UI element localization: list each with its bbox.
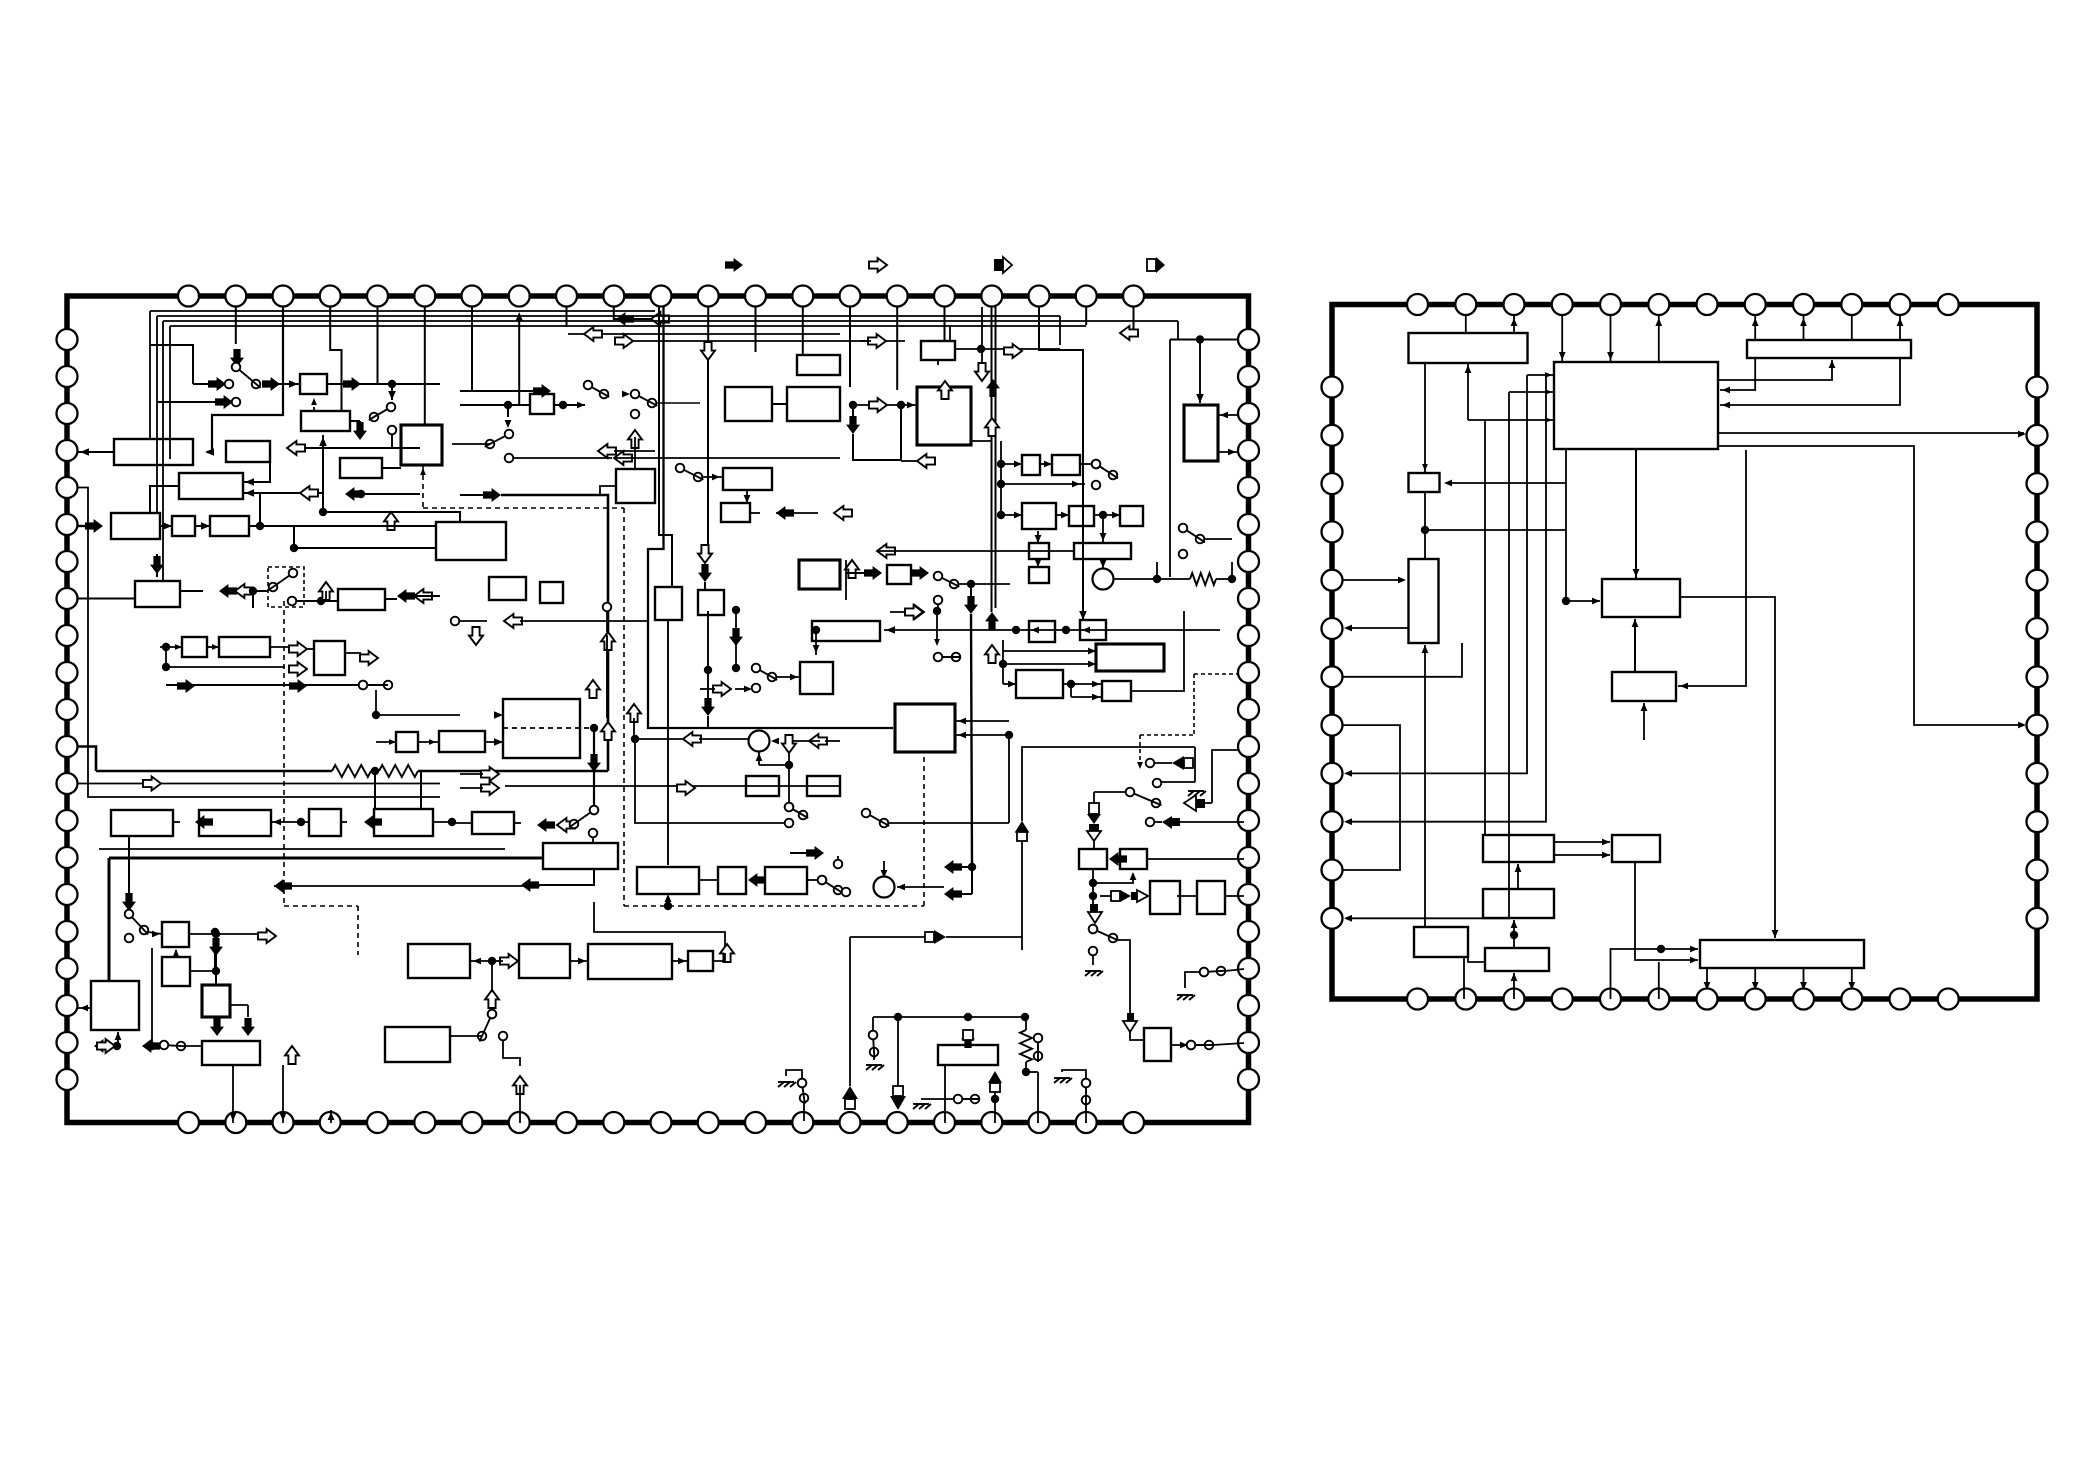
switch S12 lever xyxy=(132,918,148,935)
wire R3 to R2 in2 xyxy=(1720,358,1900,405)
ah B30 xyxy=(1044,461,1052,468)
ah B29 xyxy=(1014,461,1022,468)
block B3 xyxy=(401,425,442,465)
IC1 top pin 13 xyxy=(745,286,766,307)
wire x1071 xyxy=(1070,684,1072,697)
switch contact xyxy=(499,1032,508,1041)
IC1 left pin 21 xyxy=(57,1069,78,1090)
wire R7 to R6 xyxy=(1634,619,1636,672)
wire y771 right xyxy=(418,770,608,773)
junction x635 xyxy=(631,735,639,743)
filled left arrow right of B12 xyxy=(397,589,415,603)
wire B51 out xyxy=(190,933,216,935)
switch S26 contact A xyxy=(954,1095,963,1104)
ah into B48 xyxy=(273,819,281,826)
switch S27 contact B xyxy=(1034,1052,1043,1061)
ah pin6 xyxy=(1655,318,1662,326)
hollow right arrow h2 xyxy=(615,334,633,348)
wire B34 to mixer xyxy=(1102,559,1104,568)
hollow right arrow y783 xyxy=(143,777,161,791)
IC1 right pin 7 xyxy=(1238,551,1259,572)
hollow down arrow P12 xyxy=(701,342,715,360)
wire B41 out up xyxy=(1131,611,1184,691)
dashed v x1140 xyxy=(1139,735,1141,766)
wire P8 drop xyxy=(518,318,520,405)
switch S23 lever xyxy=(480,1019,490,1042)
filled down arrow x217 xyxy=(210,1018,224,1036)
block B2 xyxy=(301,411,350,431)
wire x846 xyxy=(845,560,847,600)
switch contact xyxy=(842,888,851,897)
ah R2 in1 xyxy=(1722,387,1730,394)
wire y774 xyxy=(460,773,483,775)
filled arrow into switch S1 xyxy=(230,349,244,367)
wire v x166 xyxy=(165,647,167,667)
wire to resistor xyxy=(1157,578,1190,580)
switch contact xyxy=(834,860,843,869)
IC2 right pin 2 xyxy=(2027,425,2048,446)
wire to B42 xyxy=(160,646,182,648)
wire M1 bottom h xyxy=(759,764,789,766)
ah R2 in2 xyxy=(1722,402,1730,409)
switch contact xyxy=(1187,1041,1196,1050)
wire S10 out xyxy=(958,583,1010,585)
wire P21 left xyxy=(1122,307,1134,333)
block B42 xyxy=(182,637,207,657)
IC2 top pin 2 xyxy=(1455,294,1476,315)
junction S13 xyxy=(732,664,740,672)
wire P14 drop xyxy=(802,307,804,355)
IC1 bottom pin 11 xyxy=(651,1112,672,1133)
bus vertical C xyxy=(991,307,993,612)
filled right arrow y686a xyxy=(177,679,195,693)
wire P7 drop xyxy=(471,307,473,391)
IC1 bottom pin 13 xyxy=(745,1112,766,1133)
IC2 bottom pin 5 xyxy=(1600,989,1621,1010)
wire B54 to pin xyxy=(232,1065,234,1123)
wire B49-B50 xyxy=(341,821,347,823)
wire B14 out xyxy=(554,404,585,406)
ah bottom pin xyxy=(1704,982,1711,990)
block B17 xyxy=(616,469,655,503)
wire B73 to pin xyxy=(1147,858,1244,860)
switch S19 contact B xyxy=(1217,967,1226,976)
wire B50 out xyxy=(433,821,452,823)
ah R13 top xyxy=(1772,930,1779,938)
switch S6 contact A xyxy=(676,464,685,473)
wire B35 in xyxy=(1037,531,1039,543)
wire res top xyxy=(1025,1017,1027,1030)
hollow left arrow left of B17 xyxy=(598,444,616,458)
wire y771 to pin12 xyxy=(78,747,96,772)
wire y894 xyxy=(959,893,972,895)
block B4 xyxy=(340,458,382,478)
hollow right arrow into B78 xyxy=(500,954,518,968)
wire S7 to B58 xyxy=(514,822,521,824)
ah B33 xyxy=(1112,512,1120,519)
junction B57 right xyxy=(590,724,598,732)
wire B24 to B60 xyxy=(667,620,669,865)
wire R10-R8 xyxy=(1517,864,1519,889)
wire x1038 pin xyxy=(1037,1072,1039,1123)
junction y1046a xyxy=(113,1042,121,1050)
ah into B77 xyxy=(473,958,481,965)
switch S14 contact B xyxy=(799,811,808,820)
junction dashed xyxy=(664,902,672,910)
switch contact xyxy=(359,681,368,690)
switch S22 contact A xyxy=(160,1041,169,1050)
hollow left arrow B7 xyxy=(300,486,318,500)
switch contact xyxy=(288,597,297,606)
junction pin1R xyxy=(1196,335,1204,343)
wire x898 xyxy=(897,1017,899,1086)
IC2 top pin 6 xyxy=(1648,294,1669,315)
switch S25 contact B xyxy=(870,1048,879,1057)
wire B76 out xyxy=(1171,1044,1186,1046)
block B65 xyxy=(812,621,880,641)
block B13 xyxy=(797,355,840,375)
arrowhead into B5 xyxy=(205,448,214,456)
wire x594 xyxy=(593,728,595,755)
ah M2 from right xyxy=(897,884,905,891)
hollow right arrow into B26 xyxy=(868,334,886,348)
wire B10 out to B21 xyxy=(249,525,436,527)
wire P2 drop xyxy=(235,307,237,344)
junction B7row xyxy=(357,490,365,498)
wire B8-B9 xyxy=(160,525,172,527)
switch contact xyxy=(631,410,640,419)
filled arrow to S1 lower xyxy=(215,395,233,409)
IC2 right pin 11 xyxy=(2027,860,2048,881)
ah B41b xyxy=(1092,694,1100,701)
switch S4b contact B xyxy=(648,399,657,408)
wire into B41b xyxy=(1071,696,1102,698)
wire S13-B38 xyxy=(776,676,800,678)
wire res right xyxy=(1026,1071,1038,1073)
IC1 left pin 12 xyxy=(57,736,78,757)
junction S3 xyxy=(317,597,325,605)
switch S2 lever xyxy=(369,410,387,421)
mixer M2 xyxy=(874,877,895,898)
hollow right arrow y689 xyxy=(713,682,731,696)
IC2 bottom pin 8 xyxy=(1745,989,1766,1010)
wire R1 to pin3 xyxy=(1513,316,1515,333)
hollow left arrow into B6 xyxy=(287,441,305,455)
ah B45 xyxy=(389,739,396,745)
switch S12 contact A xyxy=(125,910,134,919)
junction x736 y610 xyxy=(732,606,740,614)
IC2 bottom pin 10 xyxy=(1841,989,1862,1010)
junction B51 out xyxy=(212,930,220,938)
ah R7 up xyxy=(1641,703,1648,711)
wire v1527 top xyxy=(1527,374,1554,376)
legend arrow half-filled tail xyxy=(994,257,1012,273)
ah into B57b xyxy=(494,738,503,746)
IC1 top pin 12 xyxy=(698,286,719,307)
wire x492 down xyxy=(491,961,493,1010)
wire R11 to R5 xyxy=(1424,645,1426,927)
wire to down arrow xyxy=(970,584,972,597)
arrowhead into B60 xyxy=(665,894,672,902)
IC2 top pin 8 xyxy=(1745,294,1766,315)
block B74 xyxy=(1150,881,1180,914)
switch S28 lever xyxy=(1085,1088,1087,1106)
dashed v B3 xyxy=(422,466,424,508)
wire y1017 xyxy=(873,1016,1025,1018)
IC1 right pin 21 xyxy=(1238,1069,1259,1090)
wire dot to B58 xyxy=(452,822,472,824)
ah R5 in xyxy=(1398,577,1406,584)
hollow up arrow x593 xyxy=(586,680,600,698)
ah into B51 xyxy=(152,931,160,938)
arrowhead into pin P8 xyxy=(516,312,524,321)
block R8 xyxy=(1483,835,1554,862)
wire B35-B36 xyxy=(1037,559,1039,567)
IC2 right pin 8 xyxy=(2027,715,2048,736)
hollow up arrow x608 y722 xyxy=(601,722,615,740)
junction x1093a xyxy=(1089,879,1097,887)
junction B38 top xyxy=(812,626,820,634)
block B46 xyxy=(439,731,485,752)
bus H3 drop xyxy=(162,321,164,581)
arrowhead into B1 xyxy=(289,380,298,388)
block B18 xyxy=(723,468,772,490)
switch S9 contact B xyxy=(1196,535,1205,544)
ah R2 left2 xyxy=(1545,372,1552,378)
filled left arrow B7row xyxy=(345,487,363,501)
wire y823 xyxy=(888,822,1009,824)
wire B11 to arrows xyxy=(180,590,203,592)
IC2 top pin 4 xyxy=(1552,294,1573,315)
ah pin6L xyxy=(1344,625,1352,632)
ah M2 top xyxy=(881,870,888,878)
wire into B45 xyxy=(376,741,396,743)
wire res bot xyxy=(1025,1062,1027,1072)
junction B26 out xyxy=(977,345,985,353)
block B10 xyxy=(210,516,249,536)
bus H2 xyxy=(157,315,1060,317)
hollow right arrow y774 xyxy=(481,767,499,781)
arrowhead into left pin xyxy=(80,448,89,456)
legend arrow solid xyxy=(725,258,743,272)
filled down arrow x736 xyxy=(729,628,743,646)
hollow up arrow x634 xyxy=(627,704,641,722)
block B67 xyxy=(1080,620,1106,640)
wire B74-B75 xyxy=(1177,895,1197,897)
junction x216b xyxy=(212,967,220,975)
wire y664 xyxy=(1003,663,1090,665)
wire R12-R10 xyxy=(1513,920,1515,948)
wire into B39a xyxy=(1090,650,1096,652)
ah pin12L xyxy=(1344,915,1352,922)
wire B75 to pin xyxy=(1225,895,1244,897)
wire row x166 xyxy=(166,666,285,668)
wire arrow M1 xyxy=(793,740,820,742)
wire into B52 xyxy=(190,970,216,972)
filled left arrow B47-B48 xyxy=(195,815,213,829)
wire M2 top xyxy=(883,861,885,876)
glyph left-arrow filled box xyxy=(1162,816,1180,829)
junction B66 in xyxy=(1012,626,1020,634)
switch S15 contact A xyxy=(818,876,827,885)
IC1 left pin 11 xyxy=(57,699,78,720)
wire P15 drop xyxy=(849,307,851,387)
ah R2 left3 xyxy=(1545,417,1552,423)
hollow right arrow y936 xyxy=(258,929,276,943)
IC1 top pin 6 xyxy=(414,286,435,307)
thick arrow pin to B8 xyxy=(85,519,103,533)
IC1 right pin 10 xyxy=(1238,662,1259,683)
wire x594 low xyxy=(593,772,595,806)
block B59 xyxy=(543,843,618,869)
wire x503 xyxy=(503,1040,520,1066)
wire P13 drop xyxy=(755,307,757,352)
ah B43 xyxy=(212,644,219,650)
ah R9b xyxy=(1602,852,1610,859)
IC2 bottom pin 3 xyxy=(1504,989,1525,1010)
block B28 xyxy=(1184,405,1218,461)
ah into B2 bottom xyxy=(319,437,327,446)
hollow down arrow into B25 xyxy=(698,545,712,563)
ah R2a xyxy=(1559,352,1566,360)
wire S6-B18 xyxy=(702,476,723,478)
block B78 xyxy=(519,944,570,978)
IC2 bottom pin 6 xyxy=(1648,989,1669,1010)
IC1 right pin 3 xyxy=(1238,403,1259,424)
wire pin10T to R3 xyxy=(1851,315,1853,340)
ah pin9L xyxy=(1344,770,1352,777)
legend arrow hollow xyxy=(869,258,887,272)
wire B48-B49 xyxy=(271,821,309,823)
block B21 xyxy=(436,522,506,560)
wire pin5L to R5 xyxy=(1342,579,1404,581)
block R9 xyxy=(1612,835,1660,862)
switch S14 lever xyxy=(793,810,808,819)
wire to B28 xyxy=(1199,340,1201,404)
switch S16 contact B xyxy=(952,653,961,662)
junction B67 in xyxy=(1062,626,1070,634)
junction y664 xyxy=(999,660,1007,668)
block B45 xyxy=(396,732,418,752)
block B44 xyxy=(314,641,345,675)
wire B42-B43 xyxy=(207,646,219,648)
IC1 right pin 6 xyxy=(1238,514,1259,535)
junction x995 xyxy=(991,1095,999,1103)
IC1 left pin 5 xyxy=(57,477,78,498)
switch S21 contact B xyxy=(880,819,889,828)
wire pin4 to R2 xyxy=(1561,315,1563,362)
switch S22 lever xyxy=(169,1045,186,1046)
wire B47-B48 xyxy=(173,821,180,823)
junction y548 xyxy=(290,544,298,552)
switch contact xyxy=(388,426,397,435)
block B47 xyxy=(111,810,173,836)
hollow left arrow right2 of B19 xyxy=(834,506,852,520)
wire x607 xyxy=(606,611,608,632)
switch contact xyxy=(589,829,598,838)
filled down arrow into S12 xyxy=(122,893,136,911)
wire S5b row xyxy=(513,457,612,459)
block B61 xyxy=(718,867,746,894)
switch S23 contact A xyxy=(488,1010,497,1019)
ah B76 out xyxy=(1180,1042,1188,1049)
wire into R6 xyxy=(1566,600,1600,602)
IC1 bottom pin 5 xyxy=(367,1112,388,1133)
filled down arrow x216 xyxy=(209,938,223,956)
wire y782r xyxy=(1161,781,1195,783)
block B36 xyxy=(1029,567,1049,583)
wire B25 bottom xyxy=(707,611,709,701)
wire into B44 xyxy=(307,648,314,650)
thick trunk x972 xyxy=(971,614,972,867)
wire S15 up xyxy=(837,856,839,860)
IC1 right pin 5 xyxy=(1238,477,1259,498)
wire M3 right xyxy=(1113,562,1157,579)
resistor Rv xyxy=(1020,1030,1032,1062)
wire junction up xyxy=(259,492,261,526)
junction x1425 xyxy=(1421,526,1429,534)
block B75 xyxy=(1197,881,1225,914)
hollow left arrow y621 xyxy=(504,614,522,628)
wire into R13 xyxy=(1661,948,1698,950)
block R13 xyxy=(1700,940,1864,968)
switch S11 contact A xyxy=(359,681,368,690)
wire B59 down xyxy=(537,869,594,885)
ah R2b xyxy=(1607,352,1614,360)
wire y621b xyxy=(520,620,648,622)
IC1 bottom pin 18 xyxy=(981,1112,1002,1133)
block B35 xyxy=(1029,543,1049,559)
junction y1017b xyxy=(964,1013,972,1021)
switch S28 contact A xyxy=(1082,1079,1091,1088)
bus H2 drop xyxy=(156,316,158,513)
wire B7 left xyxy=(150,486,179,513)
wire to B6 xyxy=(287,447,420,449)
wire R2 loop to pin8 xyxy=(1718,446,2024,725)
block B64 xyxy=(807,776,840,796)
wire x937 xyxy=(936,607,938,644)
IC2 bottom pin 2 xyxy=(1455,989,1476,1010)
wire to glyph row xyxy=(1100,895,1111,897)
junction B42 low xyxy=(162,663,170,671)
ah B52 up xyxy=(173,949,179,956)
ah M3 xyxy=(1100,560,1107,568)
IC1 top pin 4 xyxy=(320,286,341,307)
wire x736 xyxy=(735,610,737,668)
hollow right arrow into B44b xyxy=(289,662,307,676)
junction B10 out xyxy=(256,522,264,530)
block B12 xyxy=(338,589,385,610)
block B71 xyxy=(895,704,955,752)
switch S7 contact A xyxy=(590,806,599,815)
wire pin up xyxy=(330,1110,332,1123)
wire R13 to bottom pin xyxy=(1706,968,1708,988)
bus H3 right drop xyxy=(1177,321,1179,340)
switch S10 contact B xyxy=(950,580,959,589)
wire into M2 xyxy=(897,886,944,888)
hollow right arrow y786mid xyxy=(677,781,695,795)
wire res up xyxy=(1231,562,1233,579)
hollow up arrow x520 xyxy=(513,1076,527,1094)
ah R6 xyxy=(1633,569,1640,577)
wire B7row xyxy=(361,493,420,495)
IC2 left pin 10 xyxy=(1322,811,1343,832)
switch contact xyxy=(785,819,794,828)
junction x1001c xyxy=(997,511,1005,519)
wire x634 xyxy=(633,718,635,739)
ah B40 xyxy=(1008,681,1016,688)
IC1 right pin 11 xyxy=(1238,699,1259,720)
